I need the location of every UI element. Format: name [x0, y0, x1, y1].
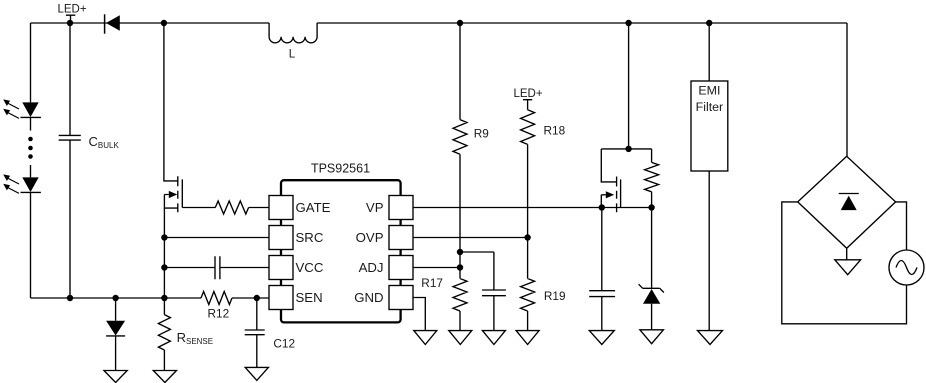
svg-text:VCC: VCC: [296, 260, 324, 275]
svg-text:C12: C12: [273, 337, 295, 351]
svg-text:LED+: LED+: [57, 4, 86, 16]
svg-text:ADJ: ADJ: [359, 260, 384, 275]
svg-text:R9: R9: [474, 127, 489, 141]
svg-text:Filter: Filter: [696, 100, 724, 114]
svg-text:SRC: SRC: [296, 230, 324, 245]
svg-text:VP: VP: [366, 200, 384, 215]
svg-text:SEN: SEN: [296, 290, 323, 305]
svg-text:OVP: OVP: [356, 230, 384, 245]
svg-text:R18: R18: [544, 123, 566, 137]
svg-text:LED+: LED+: [513, 88, 542, 100]
svg-text:R12: R12: [208, 307, 230, 321]
svg-text:EMI: EMI: [698, 84, 720, 98]
svg-text:L: L: [289, 49, 296, 61]
svg-text:R17: R17: [421, 276, 443, 290]
svg-text:TPS92561: TPS92561: [311, 162, 370, 176]
svg-text:R19: R19: [544, 289, 566, 303]
svg-text:GATE: GATE: [296, 200, 331, 215]
svg-text:GND: GND: [354, 290, 383, 305]
